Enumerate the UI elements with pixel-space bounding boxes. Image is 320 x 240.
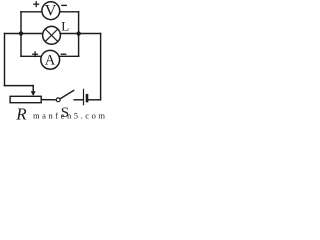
wire voltmeter right horizontal [60,11,79,13]
battery negative short thick plate [86,94,89,103]
battery positive long plate [83,89,85,106]
svg-text:L: L [61,18,69,33]
resistor R rheostat box [10,96,41,102]
switch S pivot circle [56,98,60,102]
wire voltmeter branch right vertical [78,12,80,57]
svg-text:A: A [45,52,56,68]
wire ammeter left horizontal [21,55,41,57]
rheostat slider arrowhead [31,91,36,96]
wire slider arrow stem [32,86,34,93]
wire lamp-right horizontal [61,33,101,35]
voltmeter minus terminal label [61,4,67,6]
voltmeter V circle [42,2,60,20]
lamp cross diagonals [45,29,58,42]
wire lamp-left horizontal [5,33,43,35]
wire right vertical bus [100,34,102,100]
wire switch contact to battery [74,99,83,101]
svg-text:V: V [45,3,57,20]
wire voltmeter branch left vertical [20,12,22,57]
svg-text:manfen5.com: manfen5.com [33,111,105,121]
svg-text:R: R [15,105,27,122]
wire rheostat right to switch [41,99,56,101]
wire battery to right corner [88,99,100,101]
lamp L circle [43,26,61,44]
wire voltmeter left horizontal [21,11,42,13]
node junction dot right [76,31,80,35]
voltmeter plus terminal label [33,1,39,7]
ammeter minus terminal label [61,53,67,55]
wire left vertical bus [4,34,6,86]
wire ammeter right horizontal [60,55,79,57]
ammeter A circle [41,50,60,69]
wire bottom-left horizontal to slider [5,85,34,87]
node junction dot left [19,31,23,35]
switch S lever [60,90,74,99]
ammeter plus terminal label [32,51,38,57]
